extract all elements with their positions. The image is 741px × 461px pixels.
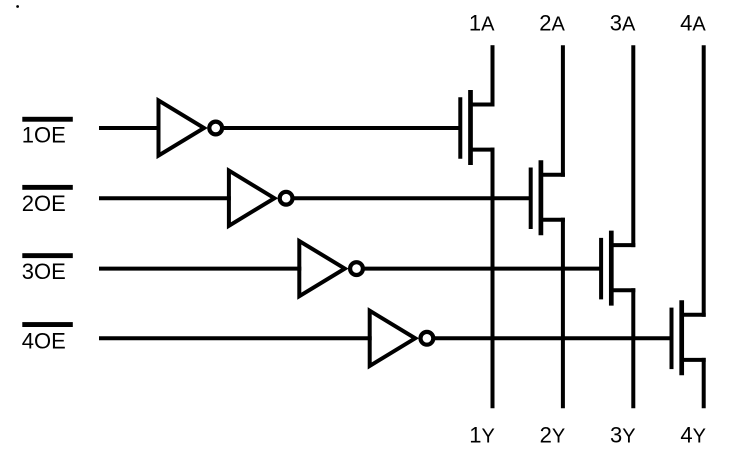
svg-text:1A: 1A [469,10,495,35]
transistor Q4 gate plate [670,308,674,370]
svg-text:3A: 3A [610,10,636,35]
transistor Q3 source stub to 3Y [610,288,636,292]
wire 3A vertical [631,45,635,247]
wire 1OE input to inverter U1 [99,126,161,130]
transistor Q2 source stub to 2Y [539,218,565,222]
inverter U4 triangle [370,311,416,366]
svg-text:4A: 4A [680,10,706,35]
inverter U2 triangle [229,171,275,226]
wire inverter U2 output to Q2 gate [292,196,530,200]
wire 4Y vertical [702,358,706,408]
wire inverter U3 output to Q3 gate [363,267,601,271]
wire 1A vertical [491,45,495,106]
svg-text:1OE: 1OE [22,122,66,147]
wire 4A vertical [702,45,706,317]
svg-text:4Y: 4Y [680,422,706,447]
transistor Q4 source stub to 4Y [680,358,706,362]
transistor Q2 channel bar [539,160,544,235]
transistor Q2 gate plate [529,168,533,230]
svg-text:1Y: 1Y [469,422,495,447]
wire inverter U4 output to Q4 gate [433,336,671,340]
inverter U3 output bubble [350,262,363,275]
transistor Q3 channel bar [609,231,614,306]
transistor Q4 drain stub to 4A [680,313,706,317]
net label 3OE overbar [22,253,73,258]
stray dot mark [16,5,19,8]
inverter U1 output bubble [209,122,222,135]
svg-text:2Y: 2Y [540,422,566,447]
wire 2OE input to inverter U2 [99,196,231,200]
transistor Q1 channel bar [468,90,473,165]
inverter U4 output bubble [421,332,434,345]
wire inverter U1 output to Q1 gate [222,126,460,130]
svg-text:2OE: 2OE [22,191,66,216]
svg-text:3OE: 3OE [22,259,66,284]
inverter U1 triangle [159,100,205,155]
transistor Q4 channel bar [679,300,684,375]
transistor Q1 source stub to 1Y [469,148,495,152]
transistor Q2 drain stub to 2A [539,173,565,177]
svg-text:4OE: 4OE [22,328,66,353]
inverter U2 output bubble [280,192,293,205]
wire 2Y vertical [561,218,565,408]
wire 4OE input to inverter U4 [99,336,372,340]
wire 1Y vertical [491,148,495,409]
wire 2A vertical [561,45,565,177]
net label 1OE overbar [22,117,73,122]
svg-text:3Y: 3Y [610,422,636,447]
svg-text:2A: 2A [539,10,565,35]
wire 3OE input to inverter U3 [99,267,301,271]
net label 2OE overbar [22,185,73,190]
transistor Q3 gate plate [599,238,603,300]
inverter U3 triangle [299,241,345,296]
transistor Q3 drain stub to 3A [610,243,636,247]
transistor Q1 drain stub to 1A [469,103,495,107]
wire 3Y vertical [631,288,635,408]
net label 4OE overbar [22,322,73,327]
transistor Q1 gate plate [458,97,462,159]
